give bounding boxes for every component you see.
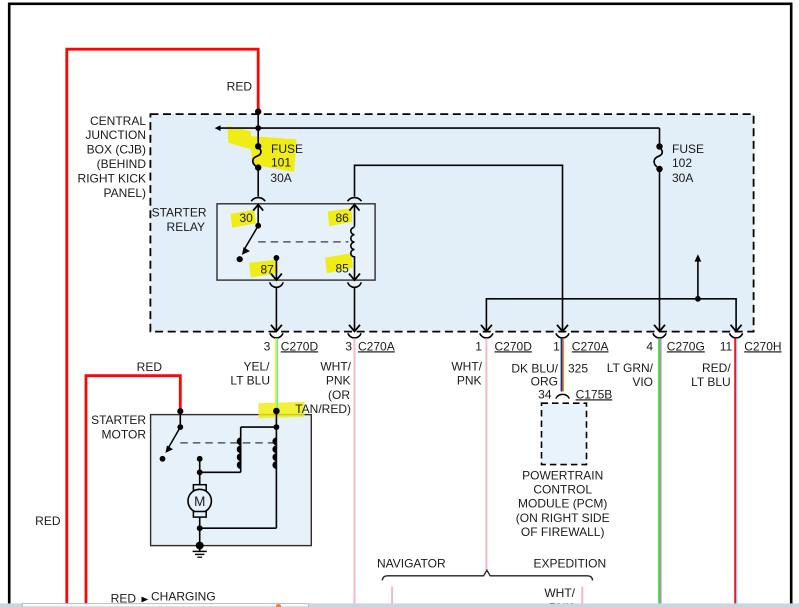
label STARTER RELAY (152, 205, 207, 233)
svg-text:PNK: PNK (326, 374, 351, 388)
svg-text:C270G: C270G (667, 339, 705, 353)
node battery/CJB junction (255, 108, 261, 114)
svg-text:C270H: C270H (744, 339, 781, 353)
highlight swipe over FUSE 101 text (251, 136, 297, 172)
starter motor box (151, 415, 312, 546)
svg-text:(OR: (OR (328, 388, 350, 402)
svg-text:C270A: C270A (358, 339, 395, 353)
arrow to charging system (142, 597, 149, 603)
svg-text:85: 85 (336, 261, 350, 275)
connector labels row (264, 339, 782, 353)
connector C175B arc pin 34 (556, 394, 570, 398)
svg-text:YEL/: YEL/ (243, 360, 270, 374)
wire RED feed to starter motor (86, 376, 180, 607)
relay switch contact (movable) (255, 223, 261, 229)
svg-text:C270D: C270D (281, 339, 319, 353)
svg-text:RIGHT KICK: RIGHT KICK (78, 171, 146, 185)
svg-text:RED: RED (227, 80, 253, 94)
svg-text:PNK: PNK (457, 374, 482, 388)
svg-text:LT BLU: LT BLU (691, 375, 731, 389)
starter relay box (217, 204, 375, 280)
svg-text:RELAY: RELAY (167, 220, 205, 234)
wire CJB bus to relay pin 86 (355, 165, 563, 331)
central junction box CJB (dashed) (150, 114, 753, 332)
wire LT GRN/VIO (659, 338, 661, 607)
svg-text:RED: RED (35, 514, 61, 528)
relay coil (351, 227, 355, 260)
svg-text:MODULE (PCM): MODULE (PCM) (518, 497, 607, 511)
wire coil to motor node (200, 471, 241, 473)
svg-text:BOX (CJB): BOX (CJB) (87, 143, 146, 157)
wire from junction down to fuse 101 (257, 112, 259, 146)
label LT GRN/VIO (607, 361, 654, 389)
motor actuator dashed link (180, 442, 274, 444)
connector row arrows and arcs at CJB bottom (270, 325, 743, 338)
svg-text:1: 1 (553, 339, 560, 353)
wire fuse 101 to relay pin 30 (257, 168, 259, 197)
svg-text:OF FIREWALL): OF FIREWALL) (521, 525, 605, 539)
svg-text:FUSE: FUSE (672, 142, 704, 156)
label RED/LT BLU (691, 361, 731, 389)
label WHT/PNK (expedition) (544, 586, 575, 607)
svg-text:STARTER: STARTER (152, 205, 207, 219)
svg-text:EXPEDITION: EXPEDITION (533, 557, 606, 571)
svg-text:101: 101 (271, 156, 291, 170)
pin 87 wire out of relay (275, 258, 277, 280)
svg-text:11: 11 (720, 339, 733, 353)
label STARTER MOTOR (91, 413, 146, 441)
svg-text:102: 102 (672, 156, 692, 170)
svg-text:1: 1 (475, 339, 482, 353)
wire WHT/PNK (relay 85) (354, 338, 356, 607)
wire RED/LT BLU (735, 338, 737, 607)
svg-text:86: 86 (336, 211, 350, 225)
node relay output (274, 255, 280, 261)
highlight swipe over fuse 101 wire (227, 126, 252, 150)
wire WHT/PNK (to PCM branch) (485, 338, 487, 570)
svg-text:30: 30 (240, 211, 254, 225)
highlight pin 86 (328, 208, 352, 226)
node feed junction (255, 125, 261, 131)
connector arc relay pin 86 (348, 198, 362, 202)
pin 30 arrow into relay (253, 205, 263, 211)
svg-text:30A: 30A (270, 171, 291, 185)
wire motor to ground (199, 517, 201, 546)
svg-text:(ON RIGHT SIDE: (ON RIGHT SIDE (516, 511, 610, 525)
svg-text:4: 4 (646, 339, 653, 353)
svg-text:325: 325 (568, 362, 588, 376)
svg-text:M: M (194, 494, 205, 509)
highlight TAN/RED (258, 402, 304, 419)
pull-in coil (237, 437, 241, 469)
node solenoid feed (YEL/LT BLU entry) (273, 408, 280, 415)
relay actuator dashed link (258, 241, 348, 243)
svg-text:ORG: ORG (531, 374, 558, 388)
wire WHT/PNK navigator branch (391, 587, 393, 607)
label DK BLU/ORG (511, 362, 558, 389)
label FUSE 102 30A (672, 142, 704, 185)
svg-text:MOTOR: MOTOR (102, 428, 147, 442)
svg-text:(BEHIND: (BEHIND (97, 157, 147, 171)
bottom UI strip (0, 603, 799, 607)
highlight pin 30 (231, 210, 256, 228)
label FUSE 101 30A (270, 142, 303, 185)
svg-text:C270A: C270A (572, 339, 609, 353)
label CENTRAL JUNCTION BOX (CJB) (78, 114, 147, 200)
hold-in coil (272, 437, 276, 469)
label POWERTRAIN CONTROL MODULE (PCM) (516, 468, 610, 539)
arrow to other circuit (up) (697, 259, 699, 299)
svg-text:30A: 30A (672, 171, 693, 185)
label WHT/PNK (451, 360, 482, 388)
svg-text:TAN/RED): TAN/RED) (295, 402, 351, 416)
svg-text:RED/: RED/ (702, 361, 731, 375)
wire feed bus to fuse 102 (220, 127, 660, 129)
svg-text:34: 34 (538, 387, 552, 401)
svg-text:JUNCTION: JUNCTION (85, 128, 146, 142)
highlight pin 85 (325, 253, 353, 273)
svg-text:LT GRN/: LT GRN/ (607, 361, 654, 375)
svg-text:CONTROL: CONTROL (533, 483, 592, 497)
motor switch (179, 412, 181, 428)
motor input node (197, 456, 203, 462)
svg-text:VIO: VIO (632, 375, 653, 389)
fuse F101 30A (253, 143, 262, 171)
svg-text:WHT/: WHT/ (544, 586, 575, 600)
relay stationary contact (237, 256, 243, 262)
svg-text:RED: RED (137, 360, 163, 374)
svg-text:WHT/: WHT/ (320, 360, 351, 374)
svg-text:CHARGING: CHARGING (151, 589, 216, 603)
node branch junction (695, 296, 701, 302)
svg-text:3: 3 (345, 339, 352, 353)
wire WHT/PNK expedition branch (581, 587, 583, 607)
wire PCM start signal inside CJB (486, 299, 736, 331)
motor switch stationary contact (160, 456, 166, 462)
fuse F102 30A (654, 128, 663, 331)
svg-text:POWERTRAIN: POWERTRAIN (522, 468, 603, 482)
label WHT/PNK (OR TAN/RED) (320, 360, 351, 402)
wire RED battery feed (left vertical + top horizontal) (67, 49, 258, 607)
svg-text:WHT/: WHT/ (451, 360, 482, 374)
pin 86 arrow into relay (350, 205, 360, 211)
PCM connector dashed box (542, 403, 587, 464)
pin 85 wire out of relay (354, 261, 356, 280)
wire DK BLU/ORG 325 (562, 338, 564, 391)
svg-text:C175B: C175B (576, 387, 613, 401)
label YEL/LT BLU (230, 360, 270, 388)
motor M1 (188, 485, 211, 517)
svg-text:NAVIGATOR: NAVIGATOR (377, 557, 446, 571)
ground G1 (196, 542, 204, 550)
svg-text:CENTRAL: CENTRAL (90, 114, 146, 128)
highlight pin 87 (249, 260, 278, 278)
wire YEL/LT BLU (276, 338, 278, 413)
node red feed at motor (177, 408, 183, 414)
wire to pull-in coil (241, 426, 277, 428)
svg-text:LT BLU: LT BLU (230, 374, 270, 388)
wire hold-in coil return (200, 527, 277, 529)
svg-text:STARTER: STARTER (91, 413, 146, 427)
arrow to other circuits (left) (215, 125, 221, 131)
svg-text:3: 3 (264, 339, 271, 353)
svg-text:C270D: C270D (495, 339, 533, 353)
connector arc relay pin 30 (251, 198, 265, 202)
brace branch selector (382, 570, 593, 580)
svg-text:PANEL): PANEL) (104, 186, 146, 200)
svg-text:FUSE: FUSE (271, 142, 303, 156)
